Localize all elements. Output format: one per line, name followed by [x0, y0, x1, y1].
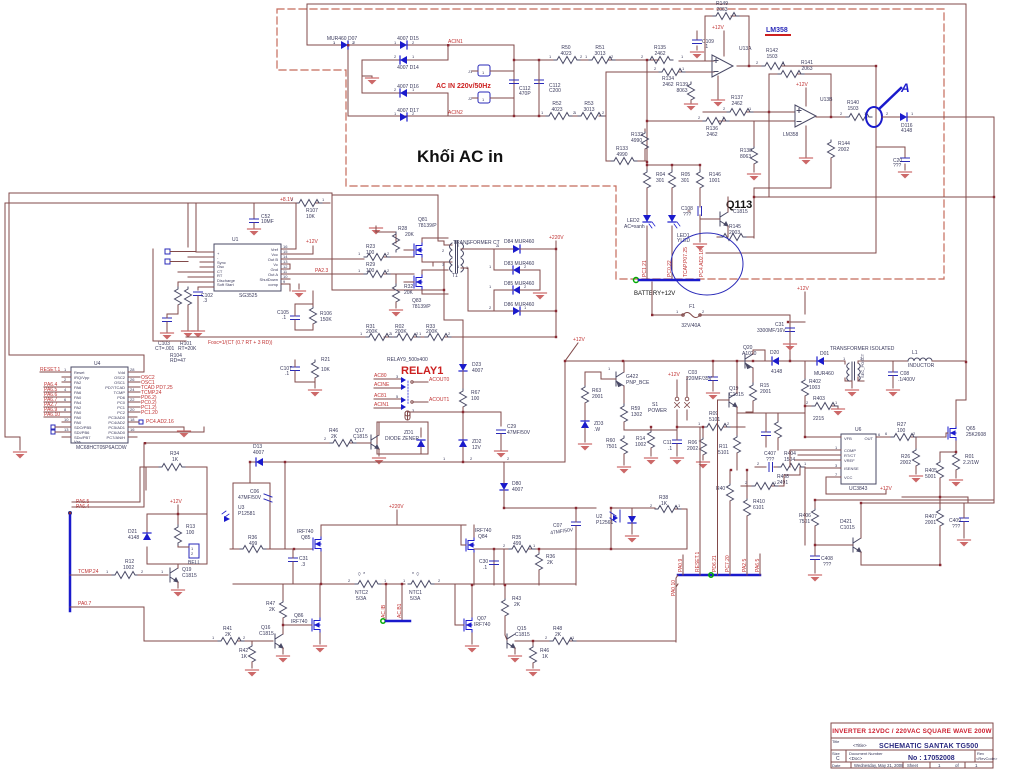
wire: left AC bus: [348, 45, 362, 116]
wire: ACIN2 row with R52 R53: [348, 72, 714, 116]
relay contact input labels: [374, 373, 401, 408]
svg-text:2063: 2063: [801, 66, 812, 72]
svg-text:AC80: AC80: [374, 373, 387, 379]
svg-text:2.2/1W: 2.2/1W: [963, 460, 979, 466]
resistor R14 1002 vertical: [635, 427, 658, 465]
wire: Q16 base row: [144, 640, 273, 642]
wire: U4 Vdd to top: [137, 355, 144, 372]
svg-text:1003: 1003: [809, 385, 820, 391]
wire: cap column 2: [538, 60, 540, 116]
wire: OutA row to MOSFET Q83: [364, 274, 414, 284]
svg-text:U13A: U13A: [739, 46, 752, 52]
wire: U13B in- row R137: [703, 111, 795, 113]
svg-text:2: 2: [545, 635, 548, 640]
resistor R51 3013: [589, 45, 615, 64]
transformer T1 center tap: [442, 240, 500, 350]
svg-text:2: 2: [387, 268, 390, 273]
svg-text:2K: 2K: [555, 632, 562, 638]
relay contact outputs: [411, 377, 450, 403]
connector marks U4 pins: [51, 420, 143, 434]
mosfet Q81 78139/P: [404, 217, 448, 262]
svg-text:4007 D17: 4007 D17: [397, 108, 419, 114]
resistor RT vertical: [175, 287, 182, 314]
svg-text:BATTERY+12V: BATTERY+12V: [634, 291, 675, 297]
svg-text:PC0.22: PC0.22: [667, 260, 673, 277]
svg-text:2001: 2001: [760, 389, 771, 395]
svg-text:2: 2: [840, 111, 843, 116]
svg-text:2: 2: [348, 578, 351, 583]
svg-text:1: 1: [678, 503, 681, 508]
capacitor C20 ???: [876, 147, 912, 179]
svg-text:1: 1: [360, 331, 363, 336]
wire: U1 left pin drops: [178, 203, 206, 290]
node A circle: [866, 81, 910, 127]
wire: main +12V rail y361: [565, 360, 817, 362]
svg-text:BELL: BELL: [188, 560, 200, 566]
mosfet Q86 IRF740: [283, 584, 327, 653]
resistor R34 1K: [146, 451, 207, 514]
svg-text:499: 499: [513, 541, 522, 547]
svg-text:SG3525: SG3525: [239, 293, 258, 299]
wire: S1 bottom rail: [624, 427, 677, 430]
svg-text:SEC_POSCT: SEC_POSCT: [860, 353, 865, 378]
ground: U1 right: [293, 284, 306, 298]
svg-text:RELAY9_500x400: RELAY9_500x400: [387, 357, 428, 363]
svg-text:3013: 3013: [583, 107, 594, 113]
connector J1: [468, 65, 514, 76]
svg-text:2462: 2462: [654, 51, 665, 57]
ground: C102 R101: [182, 331, 205, 338]
svg-text:A1020: A1020: [742, 351, 757, 357]
capacitor C108 ???: [681, 206, 702, 218]
svg-text:MUR460: MUR460: [814, 371, 834, 377]
net label PA0.7: [70, 601, 144, 641]
wire: R141 loop around U13B: [769, 74, 831, 197]
svg-text:2: 2: [507, 456, 510, 461]
diode D84 MUR460: [494, 239, 556, 253]
inductor L1: [870, 350, 966, 369]
ground: Q83 source: [432, 262, 434, 266]
svg-text:2: 2: [191, 551, 194, 556]
bell: [178, 544, 200, 566]
resistor R04 301: [644, 170, 666, 190]
svg-text:301: 301: [681, 178, 690, 184]
resistor R33 200K: [425, 324, 451, 341]
svg-text:1: 1: [698, 421, 701, 426]
resistor R05 301: [669, 170, 691, 190]
resistor R140 1503: [816, 100, 872, 121]
svg-text:+12V: +12V: [306, 239, 318, 245]
wire: R407 bottom to D421: [861, 564, 940, 566]
svg-text:U1: U1: [232, 237, 239, 243]
svg-text:PA6.5: PA6.5: [755, 559, 761, 572]
svg-text:8: 8: [64, 407, 67, 412]
resistor R403 2215: [805, 396, 845, 422]
svg-text:100: 100: [897, 428, 906, 434]
svg-text:TRANSFORMER CT: TRANSFORMER CT: [453, 240, 500, 246]
wire: opto out bottom: [611, 548, 687, 550]
svg-text:7: 7: [835, 472, 838, 477]
label C103 CT=.001 R101 RT=20K: [155, 341, 197, 364]
svg-text:1K: 1K: [542, 654, 549, 660]
blue MCU bus: [678, 574, 760, 577]
svg-text:.W: .W: [594, 427, 600, 433]
svg-text:1: 1: [541, 110, 544, 115]
ground: T2 secondary: [846, 381, 859, 397]
svg-text:.1: .1: [285, 371, 289, 377]
svg-text:SCHEMATIC SANTAK TG500: SCHEMATIC SANTAK TG500: [879, 743, 978, 750]
transistor Q15 C1815: [505, 626, 530, 663]
diode D85 MUR460: [494, 281, 540, 311]
diode D16 4007: [397, 84, 419, 97]
capacitor C30 .1: [479, 559, 499, 571]
svg-text:25K2608: 25K2608: [966, 432, 986, 438]
svg-text:ACIN1: ACIN1: [374, 402, 389, 408]
svg-text:1: 1: [585, 54, 588, 59]
svg-text:301: 301: [656, 178, 665, 184]
svg-text:150K: 150K: [320, 317, 332, 323]
svg-text:TCAP.P07.25: TCAP.P07.25: [683, 247, 689, 277]
svg-text:1: 1: [212, 635, 215, 640]
power +12V UC3843: [880, 486, 892, 492]
net labels U4 right: [137, 375, 174, 425]
svg-text:No : 17052008: No : 17052008: [908, 755, 955, 762]
svg-text:TCMP.24: TCMP.24: [78, 569, 99, 575]
capacitor C112 C200: [535, 80, 562, 94]
svg-text:1503: 1503: [847, 106, 858, 112]
wire: columns under comparator: [647, 165, 700, 170]
svg-text:VCC: VCC: [844, 475, 853, 480]
svg-text:R403: R403: [813, 396, 825, 402]
blue AC out bus: [386, 620, 410, 623]
svg-text:100: 100: [366, 250, 375, 256]
svg-text:ACOUT0: ACOUT0: [429, 377, 450, 383]
wire: U1 right pin wires: [290, 203, 364, 291]
svg-text:???: ???: [893, 163, 902, 169]
opto U2 PS2561: [596, 510, 620, 526]
capacitor C102 .3: [194, 292, 214, 330]
svg-text:1503: 1503: [766, 54, 777, 60]
capacitor C112 470P: [510, 80, 532, 97]
svg-text:ACINE: ACINE: [374, 382, 390, 388]
resistor R407 2001 vertical: [925, 497, 944, 565]
svg-text:3300MF/16V: 3300MF/16V: [757, 328, 786, 334]
svg-text:3: 3: [442, 262, 445, 267]
svg-text:+12V: +12V: [712, 25, 724, 31]
svg-text:2K: 2K: [225, 632, 232, 638]
capacitor C07 47MF/50V: [550, 508, 581, 585]
resistor R27 100: [884, 422, 946, 441]
svg-text:2: 2: [243, 635, 246, 640]
svg-text:Vss: Vss: [74, 439, 81, 444]
wire: +8.1V rail: [188, 203, 330, 247]
opto box U3 C06: [233, 483, 272, 549]
wire: R408 ISENSE row: [755, 467, 805, 545]
svg-text:1: 1: [574, 110, 577, 115]
svg-text:INDUCTOR: INDUCTOR: [908, 363, 935, 369]
svg-text:2491: 2491: [777, 480, 788, 486]
svg-text:2002: 2002: [687, 446, 698, 452]
capacitor C03 220MF/35V: [686, 361, 720, 400]
svg-text:10K: 10K: [321, 367, 331, 373]
wire: +220V rail to bridge: [321, 510, 466, 525]
svg-text:1: 1: [835, 400, 838, 405]
diode D17 4007: [397, 108, 419, 121]
svg-text:PA0.7: PA0.7: [78, 601, 91, 607]
battery bus green node: [634, 278, 639, 283]
svg-text:C1815: C1815: [259, 631, 274, 637]
svg-text:2: 2: [580, 54, 583, 59]
wire: gate drive row Q84: [474, 549, 611, 585]
svg-text:2: 2: [723, 106, 726, 111]
resistor R23 100: [364, 244, 390, 261]
diode D07 MUR460: [327, 36, 358, 49]
resistor R29 100: [364, 262, 390, 278]
svg-text:100: 100: [186, 530, 195, 536]
svg-text:PC7/AN/H: PC7/AN/H: [107, 435, 126, 440]
svg-text:1: 1: [804, 461, 807, 466]
resistor R31 200K: [366, 324, 392, 341]
svg-text:2: 2: [503, 543, 506, 548]
svg-text:4990: 4990: [616, 152, 627, 158]
connector J2: [468, 92, 514, 103]
svg-text:4007: 4007: [512, 487, 523, 493]
svg-text:1: 1: [682, 66, 685, 71]
net label RESET.1: [40, 367, 62, 373]
wire: VCC loop: [826, 477, 886, 494]
power +12V bell: [170, 499, 182, 514]
wire: Q113 emitter riser: [754, 188, 994, 238]
svg-text:2: 2: [757, 461, 760, 466]
svg-text:Fosc=1/(CT (0.7 RT + 3 RD)): Fosc=1/(CT (0.7 RT + 3 RD)): [208, 340, 273, 346]
resistor R142 1503: [762, 48, 788, 70]
svg-text:D20: D20: [770, 350, 779, 356]
capacitor C08 .1/400V: [887, 361, 916, 397]
svg-text:1: 1: [533, 543, 536, 548]
svg-text:Khối AC in: Khối AC in: [417, 147, 503, 166]
svg-text:AC.B1: AC.B1: [397, 603, 403, 618]
label R141 2063: [801, 60, 813, 72]
resistor R01 2.2/1W vertical: [950, 452, 980, 487]
svg-text:INVERTER 12VDC / 220VAC SQUARE: INVERTER 12VDC / 220VAC SQUARE WAVE 200W: [832, 728, 992, 735]
svg-text:RD=47: RD=47: [170, 358, 186, 364]
svg-text:1: 1: [489, 284, 492, 289]
resistor R134 2462: [659, 69, 685, 89]
ground: under C109: [691, 52, 704, 59]
pin number digits: [106, 40, 916, 640]
diode D21 4148: [128, 529, 151, 541]
svg-text:1: 1: [322, 197, 325, 202]
svg-text:4007 D16: 4007 D16: [397, 84, 419, 90]
resistor R46b 1K vertical: [527, 641, 550, 677]
svg-text:LM358: LM358: [783, 132, 799, 138]
power +12V main rail: [565, 337, 585, 361]
svg-text:1: 1: [64, 367, 67, 372]
svg-text:1: 1: [482, 97, 485, 102]
resistor R36 2K vertical: [536, 549, 556, 585]
svg-text:MC68HCT05P6ACDW: MC68HCT05P6ACDW: [76, 445, 127, 451]
wire: T1 secondary to diode rows: [332, 195, 494, 311]
zener ZD3: [579, 421, 604, 451]
svg-text:Wednesday, May 21, 2008: Wednesday, May 21, 2008: [854, 763, 904, 768]
svg-text:AC IN 220v/50Hz: AC IN 220v/50Hz: [436, 83, 491, 90]
svg-text:PC4.AD2.16: PC4.AD2.16: [699, 249, 705, 277]
capacitor C408 ???: [809, 545, 834, 582]
svg-text:1K: 1K: [172, 457, 179, 463]
battery blue bus: [639, 279, 699, 282]
svg-text:C1815: C1815: [182, 573, 197, 579]
svg-text:+220V: +220V: [549, 235, 564, 241]
svg-text:13: 13: [64, 427, 69, 432]
svg-text:2: 2: [702, 309, 705, 314]
resistor R101 vertical: [185, 287, 192, 330]
svg-text:1: 1: [384, 578, 387, 583]
diode D13 4007: [250, 444, 264, 483]
transistor Q19b C1015: [718, 361, 744, 413]
wire: node A to D116: [861, 117, 994, 503]
wire: top feedback rail: [307, 4, 966, 426]
svg-text:5: 5: [396, 394, 399, 399]
svg-text:1K: 1K: [241, 654, 248, 660]
transistor G422 PNP_BCE: [585, 361, 650, 404]
svg-text:Date: Date: [832, 763, 841, 768]
svg-text:+12V: +12V: [797, 286, 809, 292]
svg-text:4007: 4007: [472, 368, 483, 374]
svg-text:24: 24: [130, 387, 135, 392]
resistor R144 2002 vertical: [828, 140, 851, 160]
wire: control block outer box top: [5, 193, 444, 437]
svg-text:U4: U4: [94, 361, 101, 367]
svg-text:78139/P: 78139/P: [418, 223, 437, 229]
svg-text:+12V: +12V: [573, 337, 585, 343]
svg-text:2001: 2001: [925, 520, 936, 526]
resistor R32 20K vertical: [390, 284, 414, 317]
capacitor C11 .1: [663, 427, 684, 465]
wire: bell subcircuit box: [147, 514, 207, 564]
wire: R405 bottom row: [902, 497, 968, 503]
wire: D80 to opto row: [504, 463, 611, 549]
transistor D421 C1015: [815, 503, 861, 565]
svg-text:1: 1: [161, 569, 164, 574]
svg-text:PC7.20: PC7.20: [725, 555, 731, 572]
transformer T2 isolated: [843, 353, 870, 381]
svg-text:200K: 200K: [426, 329, 438, 335]
transistor Q19 C1815: [170, 564, 197, 597]
svg-text:2: 2: [291, 197, 294, 202]
svg-text:C: C: [836, 756, 840, 762]
svg-text:.1: .1: [282, 315, 286, 321]
svg-text:4148: 4148: [128, 535, 139, 541]
resistor R13 100 vertical: [175, 524, 196, 545]
ground: U4 right: [137, 427, 204, 438]
fuse F1 32V/40A: [681, 304, 701, 329]
diode opto indicator: [611, 508, 639, 543]
capacitor C29 47MF/50V: [495, 424, 531, 458]
svg-text:C1015: C1015: [729, 392, 744, 398]
wire: D14 row: [362, 45, 448, 60]
svg-text:4023: 4023: [560, 51, 571, 57]
svg-text:PD6.21: PD6.21: [712, 555, 718, 572]
svg-text:2063: 2063: [716, 7, 727, 13]
svg-text:2: 2: [650, 503, 653, 508]
svg-text:comp: comp: [268, 282, 279, 287]
svg-text:2: 2: [886, 111, 889, 116]
svg-text:8063: 8063: [740, 154, 751, 160]
svg-text:C1015: C1015: [840, 525, 855, 531]
svg-text:100: 100: [471, 396, 480, 402]
wire: R144 bottom loop to Q113 collector: [754, 158, 831, 188]
resistor R106 150K vertical: [310, 291, 333, 330]
ground: under U13A: [712, 76, 725, 107]
resistor R09 5101: [677, 411, 745, 431]
svg-text:5/3A: 5/3A: [356, 596, 367, 602]
svg-text:2462: 2462: [731, 101, 742, 107]
power +12V U13B: [796, 82, 808, 106]
svg-text:20K: 20K: [404, 290, 414, 296]
wire: rail to R412: [737, 406, 805, 413]
svg-text:+12V: +12V: [796, 82, 808, 88]
svg-text:22: 22: [130, 397, 135, 402]
capacitor C105 .1: [277, 304, 313, 330]
svg-text:ACIN1: ACIN1: [448, 39, 463, 45]
svg-text:R21: R21: [321, 357, 330, 363]
svg-text:12V: 12V: [472, 445, 482, 451]
svg-text:2: 2: [470, 456, 473, 461]
diode D01 MUR460: [814, 351, 845, 377]
wire: U13A out to right border: [706, 66, 876, 253]
svg-text:Title: Title: [832, 739, 840, 744]
resistor R63 2001 vertical: [582, 372, 604, 421]
LED1: [668, 215, 690, 244]
svg-text:1: 1: [975, 763, 978, 768]
svg-text:PA0.9: PA0.9: [678, 559, 684, 572]
svg-text:TRANSFORMER ISOLATED: TRANSFORMER ISOLATED: [830, 346, 895, 352]
svg-text:PA2.3: PA2.3: [315, 268, 328, 274]
svg-text:6101: 6101: [753, 505, 764, 511]
svg-text:CT=.001: CT=.001: [155, 346, 175, 352]
resistor R52 4023: [546, 101, 572, 120]
svg-text:470P: 470P: [519, 91, 531, 97]
green node on bus: [709, 573, 713, 577]
svg-text:T1: T1: [452, 273, 458, 279]
wire: NTC row: [233, 583, 576, 585]
node dot blue bus top: [68, 511, 72, 515]
wire: C31 branch: [790, 292, 805, 361]
svg-text:499: 499: [249, 541, 258, 547]
svg-text:1: 1: [681, 54, 684, 59]
wire: long bottom rail with R31 R02 R33: [186, 311, 556, 337]
resistor R43 2K vertical: [502, 585, 522, 635]
svg-text:1: 1: [911, 111, 914, 116]
svg-text:P12581: P12581: [238, 511, 255, 517]
svg-text:2K: 2K: [514, 602, 521, 608]
resistor R15 2001 vertical: [746, 383, 771, 412]
svg-text:???: ???: [823, 562, 832, 568]
svg-text:4023: 4023: [551, 107, 562, 113]
resistor R50 4023: [554, 45, 580, 64]
resistor R138 8063 vertical: [740, 121, 761, 181]
svg-text:1: 1: [938, 763, 941, 768]
svg-text:* ⌔: * ⌔: [412, 572, 420, 578]
svg-text:2: 2: [913, 431, 916, 436]
svg-text:RESET.1: RESET.1: [695, 551, 701, 572]
wire: AC diode row 1 (ACIN1): [307, 45, 514, 116]
svg-text:2462: 2462: [706, 132, 717, 138]
svg-text:2: 2: [698, 115, 701, 120]
svg-text:20: 20: [130, 407, 135, 412]
svg-text:5101: 5101: [718, 450, 729, 456]
svg-text:1: 1: [482, 70, 485, 75]
